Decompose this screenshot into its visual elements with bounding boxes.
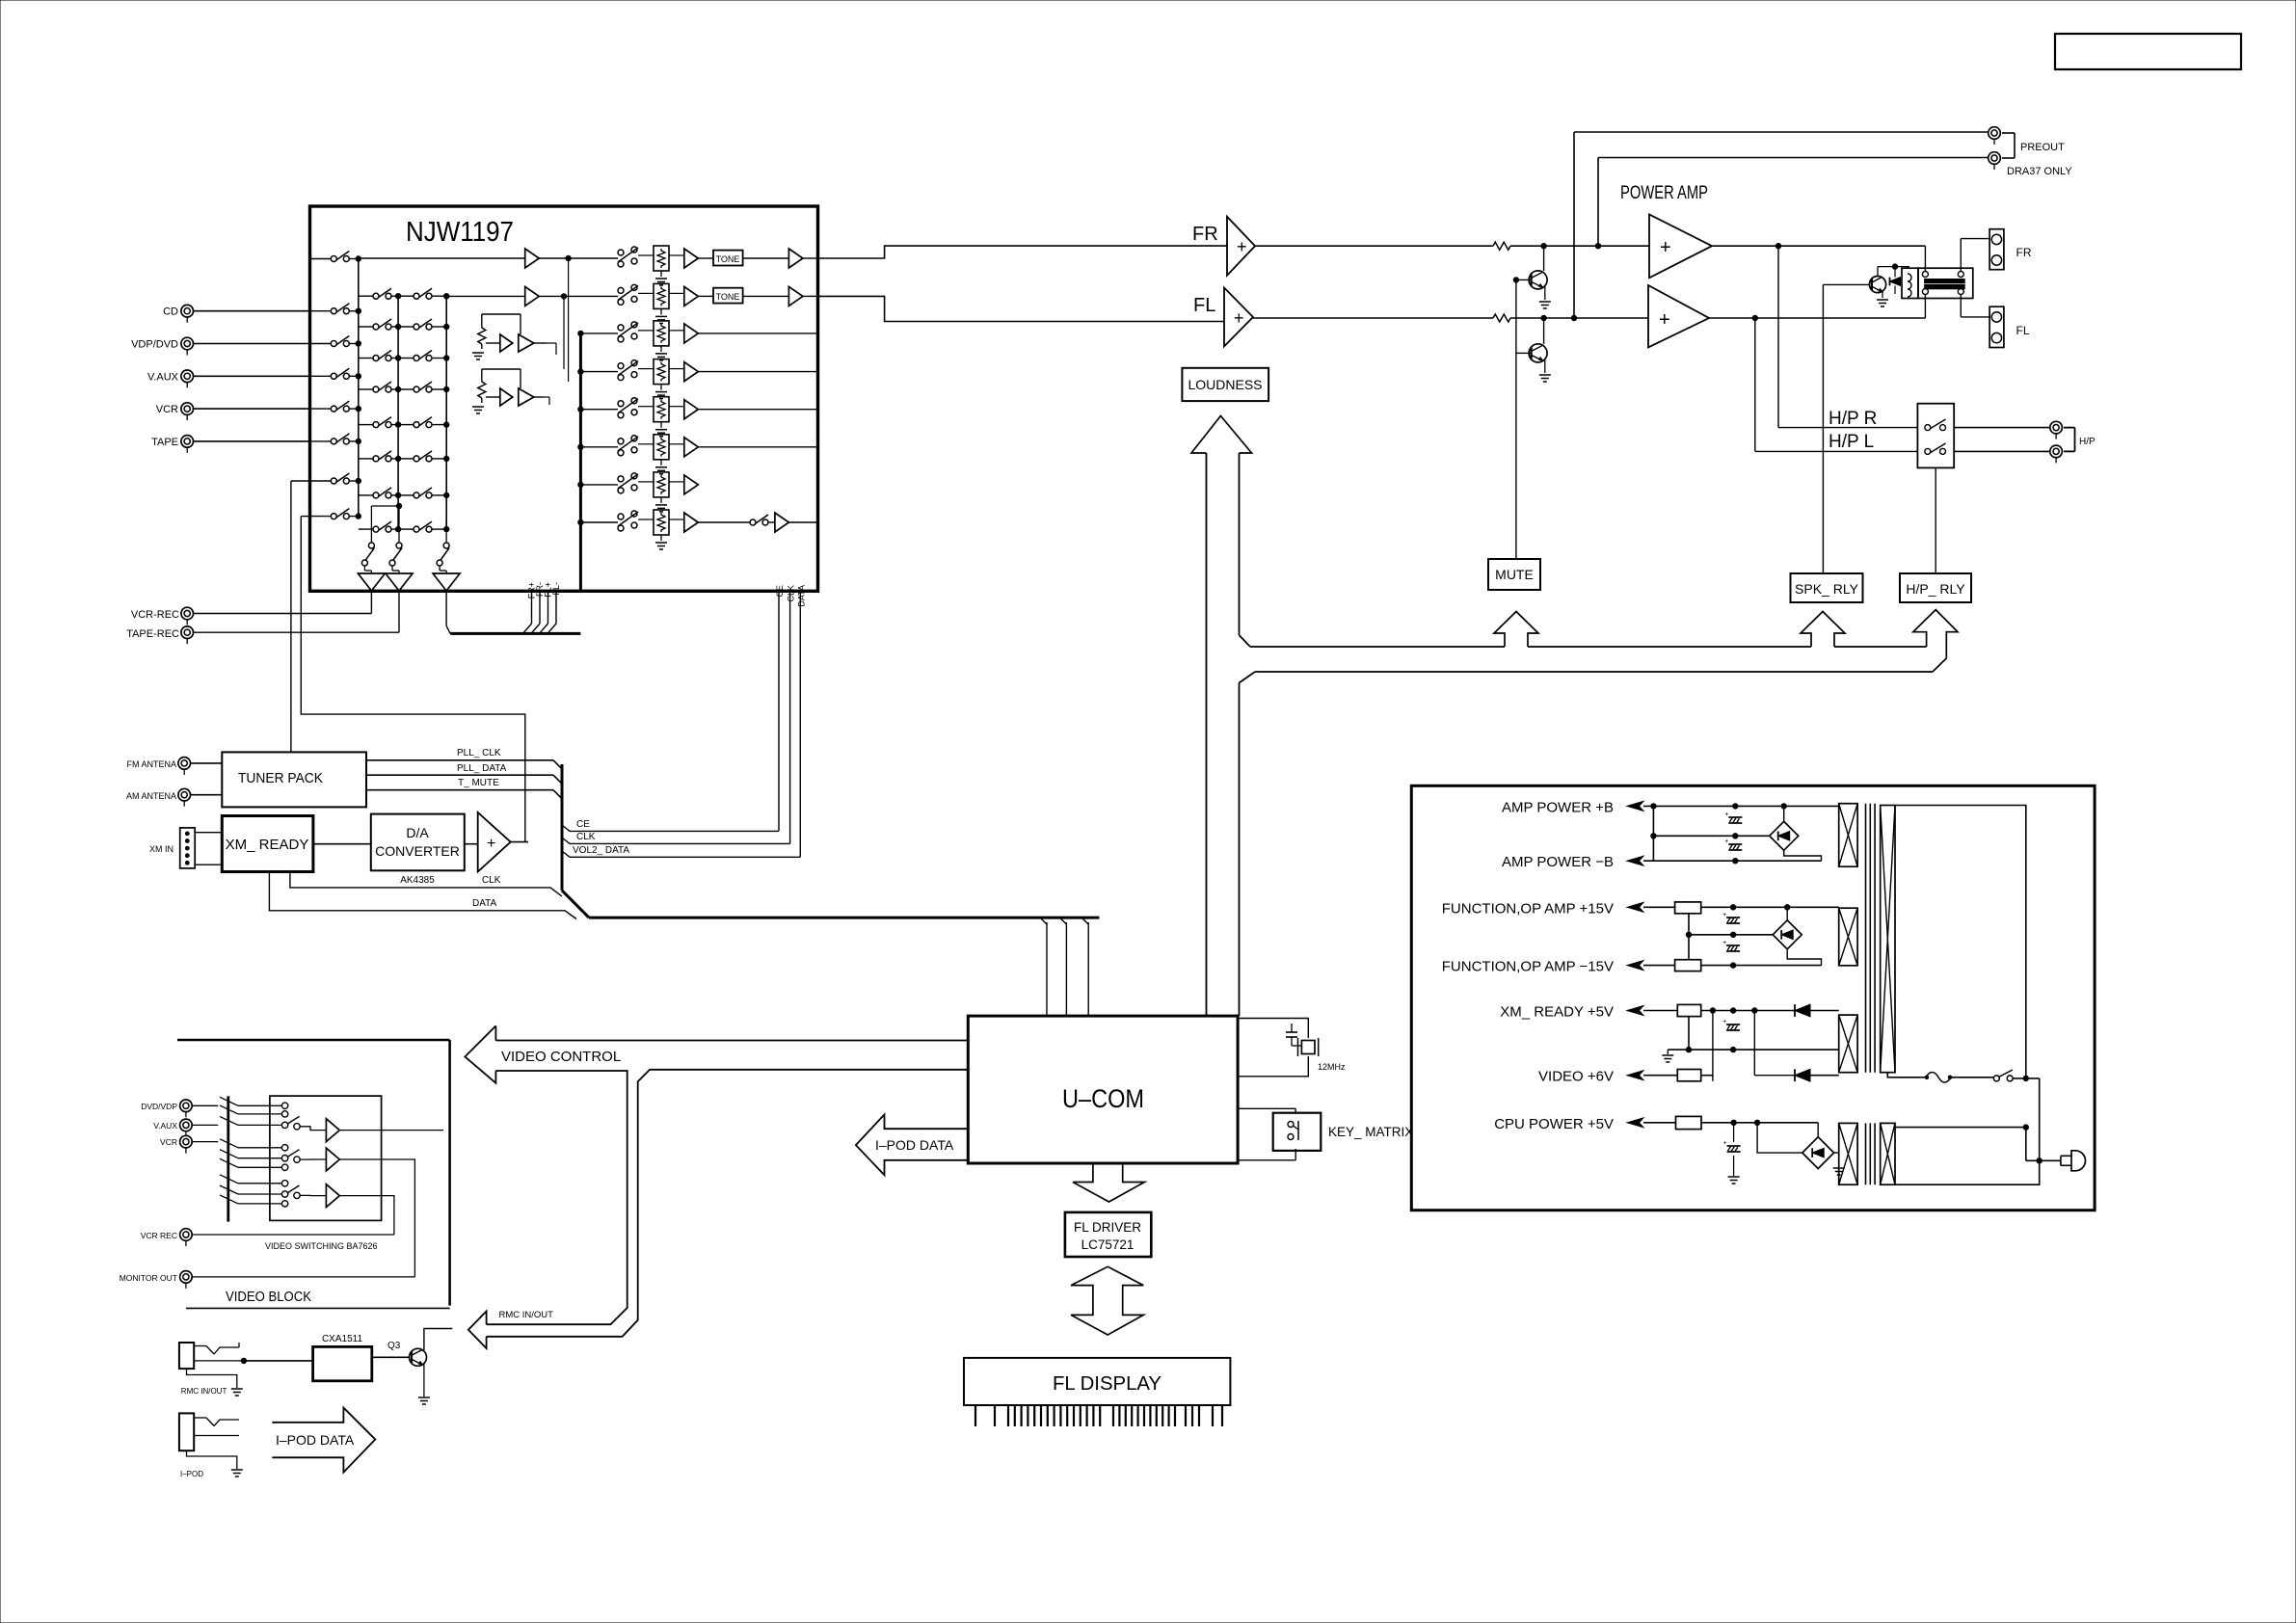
buffer rec vcr-rec (inverted triangle) (358, 571, 385, 591)
capacitor filter 2b (1722, 940, 1740, 951)
wire XM CLK (290, 872, 562, 897)
terminal block FL speaker (1989, 306, 2004, 347)
wire FR exit step (818, 246, 1228, 258)
wire cpu cap drop (1733, 1123, 1735, 1142)
wire key matrix upper (1238, 1108, 1295, 1114)
arrow out VIDEO +6V (1627, 1071, 1643, 1080)
switch video 2 (287, 1150, 300, 1163)
svg-text:TAPE: TAPE (151, 437, 178, 448)
arrow MUTE (hollow up) (1494, 612, 1538, 648)
svg-text:Q3: Q3 (387, 1341, 401, 1351)
switch rec-select bank3 row2 (398, 319, 449, 330)
arrow RMC head (468, 1312, 487, 1349)
label CLK branch (576, 832, 596, 842)
wire preout tap FL vertical (1571, 132, 1576, 321)
wire FL line (1253, 317, 1493, 319)
svg-text:D/A: D/A (406, 825, 429, 840)
switch rec-select bank3 row1 (398, 288, 449, 299)
svg-text:XM IN: XM IN (149, 844, 174, 854)
ground rmc jack (231, 1389, 243, 1396)
switch input-select bank1 row1 (310, 252, 361, 262)
switch rec-select bank2 row3 (359, 351, 401, 361)
label pin FR+ (527, 582, 537, 599)
label I-POD DATA to ucom (875, 1137, 954, 1153)
wire FR amp-out node (539, 255, 618, 260)
svg-text:RMC IN/OUT: RMC IN/OUT (181, 1387, 227, 1396)
wire rmc jack to cxa (241, 1358, 312, 1363)
svg-text:12MHz: 12MHz (1318, 1062, 1346, 1072)
svg-text:CE: CE (775, 585, 785, 598)
wire rec vcr-rec upper (370, 520, 372, 543)
winding secondary 3 (1839, 1015, 1857, 1073)
box TONE row2 (698, 288, 742, 304)
switch rec selector (437, 543, 449, 571)
switch rec tape-rec (389, 543, 402, 571)
switch rec-select bank3 row6 (398, 451, 449, 462)
label Q3 (387, 1341, 401, 1351)
transformer core upper (1866, 804, 1876, 1073)
jack I-POD body (179, 1413, 194, 1450)
arrow VIDEO CONTROL head (465, 1025, 495, 1082)
resistor FR series (1493, 242, 1510, 250)
wire -B line (1643, 859, 1822, 864)
wire VOL2_DATA branch (562, 851, 800, 857)
switch input-select bank1 row7 (310, 473, 361, 484)
arrow out CPU POWER +5V (1627, 1118, 1643, 1128)
svg-text:VIDEO CONTROL: VIDEO CONTROL (501, 1049, 621, 1065)
wire +5xm line a (1643, 1010, 1677, 1012)
buffer amp row4 (669, 362, 698, 382)
bus ucom horizontal (589, 917, 1099, 919)
label U-COM (1062, 1084, 1144, 1113)
label VCR (156, 404, 178, 415)
wire mute FL collector (1543, 318, 1545, 344)
arrow out FUNCTION,OP AMP +15V (1627, 902, 1643, 912)
wire tuner to row7 (290, 481, 292, 752)
box CXA1511 (313, 1346, 372, 1380)
bracket PREOUT (2002, 133, 2015, 158)
terminal TAPE (181, 436, 194, 453)
svg-text:U–COM: U–COM (1062, 1084, 1144, 1113)
label FL (1193, 295, 1215, 316)
buffer amp row6 (669, 438, 698, 457)
wire volume feed row5 (578, 407, 618, 412)
output amp row8 (768, 513, 818, 532)
label FUNCTION,OP AMP +15V (1442, 900, 1614, 917)
box HP switch (1917, 404, 1954, 468)
wire reg3 down (1686, 1017, 1691, 1052)
label MONITOR OUT (120, 1273, 177, 1283)
wire video buffer3 link (300, 1194, 326, 1196)
capacitor crystal load (1286, 1024, 1302, 1046)
wire monitor out (192, 1276, 414, 1278)
buffer rec selector (inverted triangle) (433, 571, 460, 591)
wire relay base from SPK_RLY (1823, 284, 1869, 573)
bus horizontal top chamfer (1240, 635, 1251, 647)
terminal PREOUT-2 (1989, 152, 2001, 170)
amp first-stage FL (525, 286, 540, 306)
wire video buffer2 link (300, 1158, 326, 1160)
buffer video 1 (326, 1119, 339, 1142)
buffer pair 1 (486, 334, 547, 352)
arrow out XM_ READY +5V (1627, 1006, 1643, 1016)
svg-text:PREOUT: PREOUT (2020, 142, 2065, 153)
box VIDEO SWITCHING (270, 1096, 382, 1220)
wire cpu primary top (1895, 1125, 2029, 1130)
wire bridge2 bottom (1787, 949, 1821, 966)
box VIDEO BLOCK (open left) (177, 1040, 450, 1308)
svg-text:+: + (1722, 912, 1726, 918)
label H/P L (1829, 432, 1874, 452)
label XM_ READY +5V (1500, 1004, 1614, 1021)
svg-text:VIDEO SWITCHING BA7626: VIDEO SWITCHING BA7626 (265, 1241, 378, 1251)
switch input-select bank1 row3 (310, 336, 361, 347)
wire tape-rec out (194, 591, 400, 632)
wire CLK drop (789, 591, 791, 843)
wire HP R to jack (1954, 427, 2049, 429)
svg-text:AM ANTENA: AM ANTENA (126, 791, 176, 801)
wire FL exit step (818, 296, 1225, 321)
label CONVERTER (375, 843, 460, 859)
wire HP L drop (1755, 318, 1918, 451)
switch video 3 (287, 1185, 300, 1199)
ground ipod jack (231, 1470, 243, 1477)
label SPK_RLY (1795, 581, 1859, 597)
resistor attenuator row2 (638, 283, 669, 308)
box FL DRIVER (1065, 1212, 1151, 1257)
wire rec tape-rec upper (398, 520, 400, 543)
transistor Q3 (410, 1348, 427, 1366)
wire FR line 2 (1510, 244, 1649, 249)
contact video 5 (281, 1156, 287, 1161)
wire XM DATA (269, 872, 576, 919)
wire mute FR collector (1543, 246, 1545, 271)
label NJW1197 (406, 217, 514, 248)
wire relay FR in (1924, 246, 1926, 271)
svg-text:+: + (1724, 838, 1728, 845)
ground Q3 (418, 1397, 430, 1404)
wire cpu line a (1643, 1122, 1676, 1124)
svg-text:AMP POWER +B: AMP POWER +B (1502, 799, 1614, 815)
bracket HP (2064, 428, 2075, 452)
svg-text:+: + (487, 836, 495, 852)
label TAPE-REC (126, 628, 179, 640)
terminal HP jack R (2050, 421, 2063, 439)
svg-text:PLL_ CLK: PLL_ CLK (457, 748, 501, 758)
regulator +15V (1675, 902, 1701, 914)
switch rec-select bank3 row8 (398, 521, 449, 532)
svg-text:VCR REC: VCR REC (141, 1231, 177, 1240)
winding secondary 1 (1839, 804, 1857, 867)
label 12MHz (1318, 1062, 1346, 1072)
label XM IN (149, 844, 174, 854)
capacitor filter 3 (1722, 1019, 1740, 1030)
ground bridge4 (1833, 1168, 1845, 1175)
wire buffer2 feed (482, 369, 521, 388)
label VIDEO SWITCHING BA7626 (265, 1241, 378, 1251)
wire video fan 5 (220, 1150, 281, 1158)
transistor mute FL (1529, 344, 1547, 362)
wire FL amp-out node (539, 294, 618, 299)
svg-text:POWER AMP: POWER AMP (1620, 183, 1708, 203)
wire cpu bridge left (1754, 1120, 1802, 1153)
switch HP R contact (1925, 419, 1946, 431)
wire video VCR stub (192, 1141, 218, 1143)
resistor attenuator row1 (638, 246, 669, 271)
wire fuse to switch (1951, 1077, 1993, 1078)
wire volume feed row3 (578, 331, 618, 335)
label H/P (2079, 437, 2096, 447)
ground cpu cap (1728, 1177, 1740, 1184)
label LOUDNESS (1188, 377, 1262, 392)
relay coil (1902, 268, 1918, 298)
wire CE drop (778, 591, 780, 831)
contact video 2 (281, 1111, 287, 1117)
wire VCR input (194, 408, 310, 410)
winding primary cpu (1881, 1123, 1895, 1184)
arrow VIDEO CONTROL top line (495, 1040, 968, 1042)
buffer amp row7 (669, 475, 698, 494)
connector XM IN (180, 828, 196, 868)
switch rec-select bank3 row5 (398, 417, 449, 428)
wire video tap (1754, 1011, 1795, 1076)
svg-text:H/P R: H/P R (1829, 409, 1877, 429)
bus video select vertical (227, 1096, 229, 1221)
label VDP/DVD (131, 339, 178, 351)
label XM CLK (482, 875, 501, 886)
svg-text:+: + (1722, 1019, 1726, 1025)
box XM_READY (222, 816, 313, 872)
label I-POD DATA out (276, 1432, 355, 1448)
wire -15 line b (1701, 963, 1822, 968)
label TAPE (151, 437, 178, 448)
wire FR poweramp out (1712, 244, 1925, 249)
ground relay driver (1877, 290, 1888, 306)
arrow out AMP POWER +B (1627, 801, 1643, 811)
buffer amp row1 (669, 249, 698, 268)
svg-text:VIDEO +6V: VIDEO +6V (1538, 1069, 1614, 1085)
svg-text:H/P: H/P (2079, 437, 2096, 447)
wire T_MUTE (366, 790, 562, 799)
terminal block FR speaker (1989, 229, 2004, 270)
label HP_RLY (1906, 581, 1965, 597)
svg-text:CLK: CLK (787, 585, 796, 602)
label POWER AMP (1620, 183, 1708, 203)
label RMC IN/OUT jack (181, 1387, 227, 1396)
wire xm in pins (195, 833, 222, 865)
arrow out AMP POWER -B (1627, 856, 1643, 865)
svg-text:+: + (1234, 308, 1244, 328)
capacitor filter 2a (1722, 912, 1740, 923)
label PLL_DATA (457, 763, 507, 774)
buffer video 3 (326, 1184, 339, 1208)
wire xm to da (313, 843, 371, 845)
wire video buffer2 out (339, 1159, 414, 1277)
switch rec-select bank3 row4 (398, 382, 449, 392)
svg-text:XM_ READY: XM_ READY (226, 837, 309, 853)
resistor attenuator row5 (638, 397, 669, 422)
wire rail 3 (1668, 1047, 1838, 1051)
switch input-select bank1 row6 (310, 434, 361, 444)
svg-text:VCR: VCR (160, 1137, 177, 1147)
wire pin FR- (532, 591, 540, 632)
wire AM antena (191, 794, 223, 796)
wire cpu primary bottom (1895, 1160, 2040, 1184)
wire tone loop FL (544, 397, 549, 405)
wire output row4 (698, 371, 817, 373)
wire ipod jack ground (187, 1450, 237, 1469)
arrow I-POD DATA out (272, 1408, 375, 1473)
output amp row1 (743, 249, 818, 268)
label XM_READY (226, 837, 309, 853)
switch rec-select bank2 row6 (359, 451, 401, 462)
svg-text:XM_ READY +5V: XM_ READY +5V (1500, 1004, 1614, 1021)
wire video V.AUX stub (192, 1124, 218, 1126)
box TONE row1 (698, 251, 742, 266)
bus horizontal top segment 1 (1250, 646, 1505, 648)
bus fanout wire 1 (1040, 918, 1047, 1016)
wire bank3 collect bus (445, 296, 447, 529)
wire reg link 2 (1686, 914, 1691, 960)
wire bank2 collect bus (397, 296, 399, 529)
relay contact bar 2 (1925, 285, 1965, 289)
wire primary bottom to fuse (1887, 1073, 1926, 1078)
label VOL2_DATA (573, 845, 629, 856)
terminal VCR-REC (181, 607, 194, 625)
svg-text:CLK: CLK (482, 875, 501, 886)
wire HP switch to HP_RLY (1935, 467, 1936, 573)
svg-text:VOL2_ DATA: VOL2_ DATA (573, 845, 629, 856)
arrow loudness (hollow up) (1191, 416, 1252, 454)
label VCR-REC (131, 609, 179, 621)
wire -15 line a (1643, 965, 1675, 967)
svg-text:CE: CE (576, 819, 590, 830)
label pin DATA (796, 585, 806, 607)
wire preout FR line (1598, 157, 1988, 159)
svg-text:DVD/VDP: DVD/VDP (141, 1102, 177, 1111)
box SPK_RLY (1791, 573, 1863, 602)
terminal VDP/DVD (181, 337, 194, 355)
wire q3 emitter (423, 1365, 425, 1397)
wire video fan 8 (220, 1185, 281, 1194)
wire PLL_DATA (366, 775, 562, 784)
svg-text:FM ANTENA: FM ANTENA (126, 759, 176, 769)
switch volume bank row6 (618, 436, 638, 456)
wire row2 to amp (446, 295, 525, 297)
label AMP POWER +B (1502, 799, 1614, 815)
buffer amp row8 (669, 513, 698, 532)
contact video 4 (281, 1145, 287, 1151)
switch input-select bank1 row8 (310, 509, 361, 519)
svg-text:MONITOR OUT: MONITOR OUT (120, 1273, 177, 1283)
label VIDEO +6V (1538, 1069, 1614, 1085)
capacitor filter 1a (1724, 811, 1742, 823)
wire volume feed row4 (578, 369, 618, 374)
wire video buffer1 link (300, 1127, 326, 1131)
wire da out (511, 841, 528, 843)
svg-text:T_ MUTE: T_ MUTE (458, 778, 499, 788)
bridge rectifier 2 (1773, 920, 1802, 949)
bridge rectifier 4 (1802, 1137, 1834, 1169)
svg-text:CONVERTER: CONVERTER (375, 843, 460, 859)
ground input-bias 1 (472, 353, 484, 359)
svg-text:V.AUX: V.AUX (147, 371, 179, 383)
label AM ANTENA (126, 791, 176, 801)
wire output row5 (698, 409, 817, 411)
buffer rec tape-rec (inverted triangle) (386, 571, 413, 591)
label FR speaker (2016, 246, 2032, 259)
wire mid rail 1 (1653, 834, 1769, 838)
wire pin FL- (548, 591, 556, 632)
wire video buffer1 out (339, 1130, 443, 1131)
box power supply (1411, 785, 2095, 1210)
wire relay collector rail (1878, 264, 1909, 277)
ground attenuator row2 (655, 308, 667, 323)
wire V.AUX input (194, 375, 310, 377)
output amp row2 (743, 286, 818, 306)
capacitor filter 1b (1724, 838, 1742, 850)
terminal PREOUT-1 (1989, 127, 2001, 145)
label VCR REC (141, 1231, 177, 1240)
wire row8 lead-in (301, 516, 309, 518)
buffer amp row5 (669, 400, 698, 419)
svg-text:DRA37 ONLY: DRA37 ONLY (2007, 166, 2072, 177)
wire crystal loop (1238, 1019, 1308, 1077)
ground attenuator row8 (655, 535, 667, 549)
contact video 7 (281, 1181, 287, 1186)
wire +-B link (1651, 806, 1656, 861)
svg-text:CPU POWER +5V: CPU POWER +5V (1494, 1116, 1614, 1132)
contact video 1 (281, 1103, 287, 1108)
wire rmc jack ground (187, 1369, 237, 1388)
wire mute base bus (1513, 278, 1531, 559)
fuse F1 (1925, 1073, 1952, 1083)
wire +6 line b (1701, 1076, 1713, 1081)
regulator XM +5V (1677, 1004, 1700, 1016)
label pin FL- (551, 582, 561, 596)
svg-text:TONE: TONE (716, 254, 740, 264)
switch output row8 (698, 515, 768, 525)
contact video 6 (281, 1164, 287, 1170)
box HP_RLY (1900, 573, 1971, 602)
label pin CLK (787, 585, 796, 602)
bus loudness left line (1206, 453, 1208, 1016)
regulator CPU +5V (1676, 1116, 1702, 1129)
wire video fan 6 (220, 1158, 281, 1167)
wire +6 line a (1643, 1075, 1677, 1077)
label T_MUTE (458, 778, 499, 788)
wire row1 to amp (359, 257, 525, 259)
svg-text:+: + (1724, 811, 1728, 818)
wire cxa to q3 (372, 1356, 410, 1358)
resistor attenuator row7 (638, 472, 669, 497)
svg-text:I–POD DATA: I–POD DATA (276, 1432, 355, 1448)
wire video fan 4 (220, 1139, 281, 1148)
bus fanout wire 2 (1059, 918, 1066, 1016)
wire FL poweramp out (1709, 315, 1925, 320)
bus ucom vertical (561, 764, 564, 891)
switch rec-select bank3 row3 (398, 351, 449, 361)
switch rec-select bank2 row4 (359, 382, 401, 392)
op-amp power FR (1649, 214, 1712, 278)
wire FL to terminal (1961, 295, 1989, 317)
svg-text:FL: FL (1193, 295, 1215, 316)
wire +15 line a (1643, 906, 1675, 908)
terminal TAPE-REC (181, 626, 194, 644)
svg-text:TAPE-REC: TAPE-REC (126, 628, 179, 640)
box FL DISPLAY (964, 1358, 1230, 1405)
wire primary top (1895, 806, 2026, 1078)
